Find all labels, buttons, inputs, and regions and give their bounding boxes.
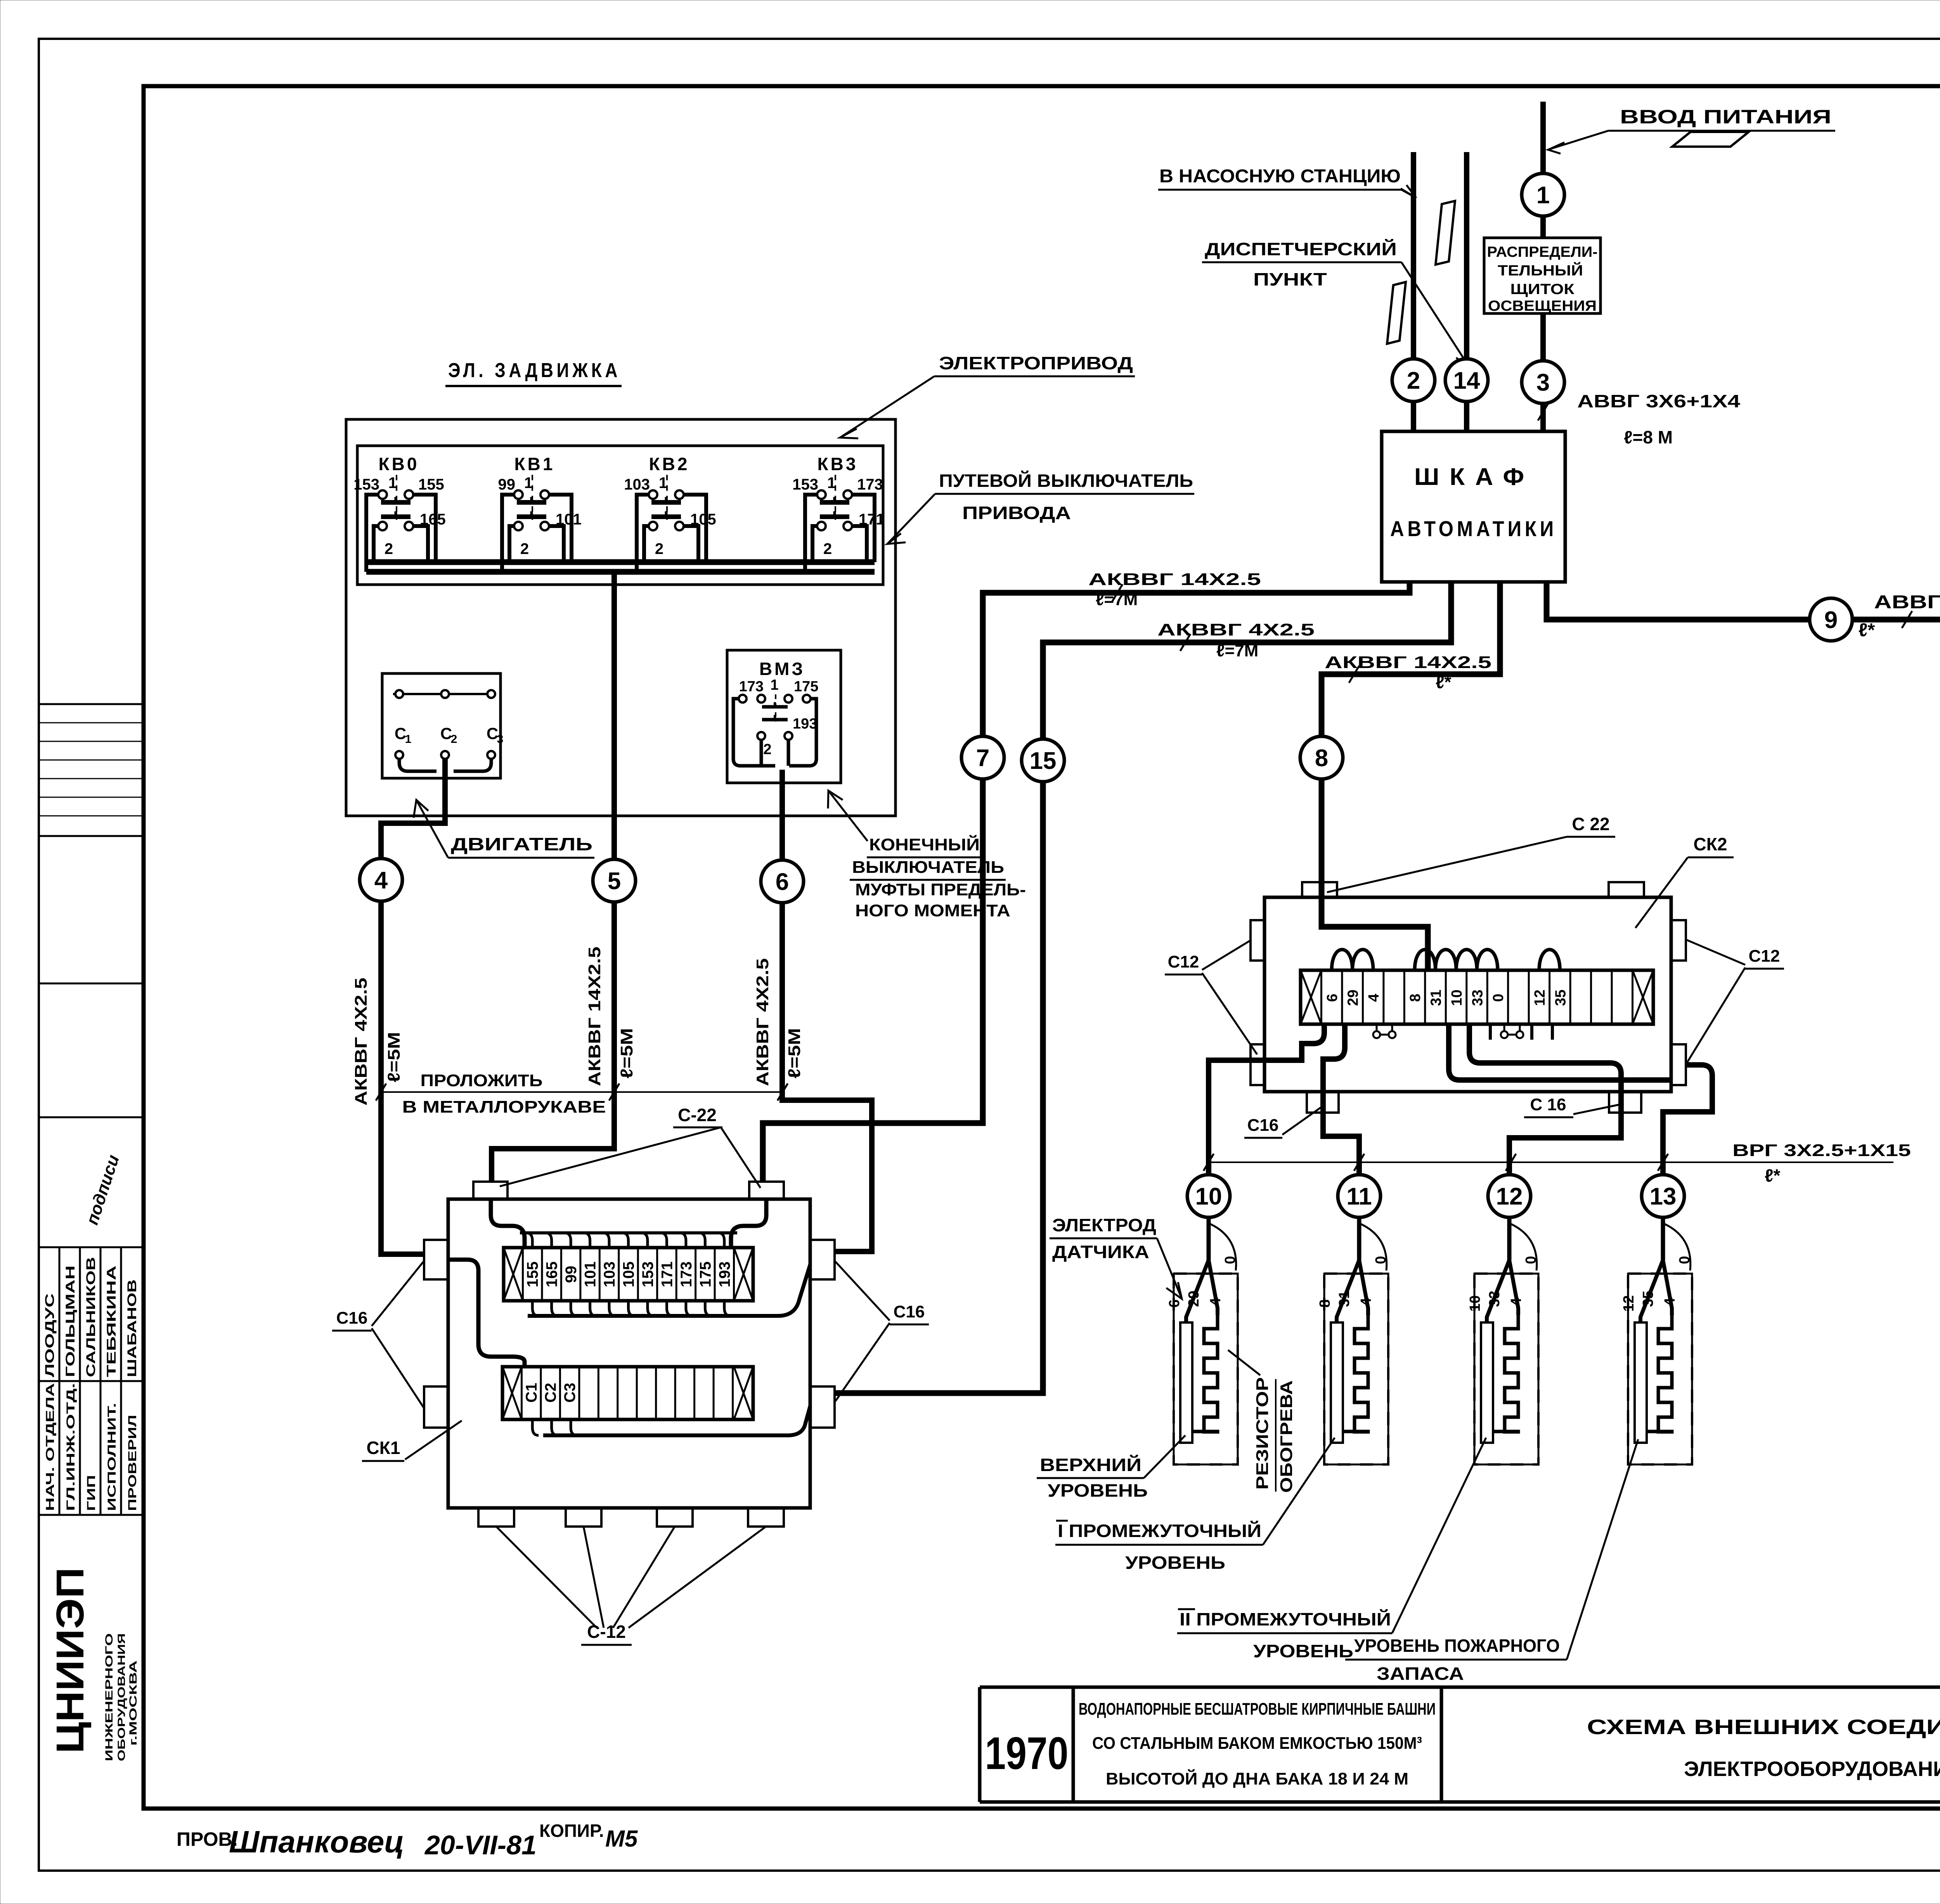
svg-text:УРОВЕНЬ: УРОВЕНЬ xyxy=(1125,1553,1225,1573)
svg-text:АКВВГ 4Х2.5: АКВВГ 4Х2.5 xyxy=(1157,620,1315,639)
node circle 6 xyxy=(761,860,804,903)
svg-text:С: С xyxy=(487,724,498,743)
svg-text:13: 13 xyxy=(1650,1183,1677,1210)
svg-text:С2: С2 xyxy=(542,1383,559,1402)
svg-text:МУФТЫ ПРЕДЕЛЬ-: МУФТЫ ПРЕДЕЛЬ- xyxy=(855,880,1026,899)
SK2 side tabs xyxy=(1251,920,1264,961)
automation cabinet xyxy=(1382,431,1565,582)
node circle 3 xyxy=(1522,361,1564,403)
svg-text:173: 173 xyxy=(678,1262,695,1288)
SK1 internal wire from cable 4 xyxy=(448,1260,525,1367)
svg-text:УРОВЕНЬ ПОЖАРНОГО: УРОВЕНЬ ПОЖАРНОГО xyxy=(1354,1636,1560,1656)
SK1 strip1 top stubs xyxy=(526,1233,532,1248)
svg-text:99: 99 xyxy=(563,1266,580,1283)
SK2 bottom tabs xyxy=(1307,1092,1339,1113)
svg-text:ОБОГРЕВА: ОБОГРЕВА xyxy=(1277,1380,1296,1493)
svg-text:1: 1 xyxy=(1536,182,1550,209)
svg-text:155: 155 xyxy=(524,1262,541,1288)
wire cable 8 run xyxy=(1322,582,1500,970)
svg-text:ПРОЛОЖИТЬ: ПРОЛОЖИТЬ xyxy=(421,1071,543,1090)
level sensor electrode group 8/31 xyxy=(1317,1217,1389,1464)
svg-text:33: 33 xyxy=(1470,990,1486,1006)
svg-text:ДВИГАТЕЛЬ: ДВИГАТЕЛЬ xyxy=(451,834,592,854)
wire cable 9 run xyxy=(1547,582,1940,676)
cable route mark parallelogram B xyxy=(1387,282,1406,344)
svg-text:ГОЛЬЦМАН: ГОЛЬЦМАН xyxy=(63,1265,77,1377)
svg-text:ТЕЛЬНЫЙ: ТЕЛЬНЫЙ xyxy=(1498,261,1583,279)
svg-text:29: 29 xyxy=(1345,990,1361,1006)
node circle 1 xyxy=(1522,173,1564,216)
svg-text:155: 155 xyxy=(418,476,444,493)
svg-text:31: 31 xyxy=(1428,990,1445,1006)
svg-text:15: 15 xyxy=(1030,748,1057,774)
svg-text:101: 101 xyxy=(582,1262,599,1288)
node circle 9 xyxy=(1810,598,1852,641)
svg-text:ВЕРХНИЙ: ВЕРХНИЙ xyxy=(1040,1455,1141,1475)
svg-text:ВЫКЛЮЧАТЕЛЬ: ВЫКЛЮЧАТЕЛЬ xyxy=(852,858,1004,877)
svg-text:10: 10 xyxy=(1195,1183,1222,1210)
svg-text:153: 153 xyxy=(639,1262,656,1288)
svg-text:С12: С12 xyxy=(1749,947,1780,966)
level sensor electrode group 12/35 xyxy=(1621,1217,1693,1464)
svg-text:4: 4 xyxy=(374,867,388,894)
SK2 loops above strip xyxy=(1332,950,1352,970)
node circle 13 xyxy=(1642,1175,1684,1217)
svg-text:М5: М5 xyxy=(605,1826,638,1852)
svg-text:ДАТЧИКА: ДАТЧИКА xyxy=(1052,1242,1149,1262)
svg-text:ИНЖЕНЕРНОГО: ИНЖЕНЕРНОГО xyxy=(103,1633,115,1761)
svg-text:АКВВГ 14Х2.5: АКВВГ 14Х2.5 xyxy=(1325,653,1491,672)
svg-text:С16: С16 xyxy=(1247,1116,1279,1135)
motor terminal box xyxy=(382,673,501,778)
svg-text:ЛООДУС: ЛООДУС xyxy=(43,1293,57,1377)
svg-text:175: 175 xyxy=(794,679,818,695)
wire dispatcher cable 14 xyxy=(1464,152,1469,431)
svg-text:12: 12 xyxy=(1496,1183,1523,1210)
terminal box SK1 xyxy=(448,1199,810,1508)
svg-text:2: 2 xyxy=(1407,367,1420,394)
svg-text:КВ2: КВ2 xyxy=(649,454,690,474)
svg-text:165: 165 xyxy=(544,1262,561,1288)
motor terminal wires xyxy=(399,759,436,771)
svg-text:С16: С16 xyxy=(894,1302,925,1321)
svg-text:г.МОСКВА: г.МОСКВА xyxy=(127,1660,139,1746)
svg-text:ПУНКТ: ПУНКТ xyxy=(1253,269,1327,289)
wire cable 6 run xyxy=(782,770,872,1251)
svg-text:0: 0 xyxy=(1523,1256,1539,1264)
svg-text:2: 2 xyxy=(451,733,457,746)
svg-text:ВМЗ: ВМЗ xyxy=(759,659,805,679)
svg-text:С1: С1 xyxy=(523,1383,540,1402)
wire contact bus in travel switch box xyxy=(366,559,875,565)
svg-text:99: 99 xyxy=(498,476,516,493)
svg-text:0: 0 xyxy=(1222,1256,1238,1264)
svg-text:1: 1 xyxy=(827,474,836,492)
svg-text:НОГО МОМЕНТА: НОГО МОМЕНТА xyxy=(855,901,1010,920)
svg-text:ЩИТОК: ЩИТОК xyxy=(1510,281,1575,298)
svg-text:ℓ=5М: ℓ=5М xyxy=(617,1028,636,1078)
svg-text:153: 153 xyxy=(353,476,379,493)
svg-text:0: 0 xyxy=(1373,1256,1389,1264)
svg-text:ПРИВОДА: ПРИВОДА xyxy=(962,503,1071,523)
svg-text:ИСПОЛНИТ.: ИСПОЛНИТ. xyxy=(106,1403,118,1511)
svg-text:II ПРОМЕЖУТОЧНЫЙ: II ПРОМЕЖУТОЧНЫЙ xyxy=(1180,1609,1391,1629)
svg-text:I ПРОМЕЖУТОЧНЫЙ: I ПРОМЕЖУТОЧНЫЙ xyxy=(1058,1521,1261,1541)
SK2 terminal strip xyxy=(1301,970,1653,1024)
svg-text:ГЛ.ИНЖ.ОТД.: ГЛ.ИНЖ.ОТД. xyxy=(64,1383,77,1511)
svg-text:1: 1 xyxy=(405,733,412,746)
svg-text:ℓ=8 М: ℓ=8 М xyxy=(1624,427,1673,447)
svg-text:173: 173 xyxy=(739,679,764,695)
SK1 terminal strip 1 xyxy=(504,1248,753,1301)
svg-text:С 16: С 16 xyxy=(1530,1095,1566,1114)
svg-text:АКВВГ 14Х2.5: АКВВГ 14Х2.5 xyxy=(585,947,604,1086)
stamp column dividers xyxy=(39,703,144,705)
svg-text:10: 10 xyxy=(1449,990,1465,1006)
svg-text:3: 3 xyxy=(1536,369,1550,396)
svg-text:СХЕМА ВНЕШНИХ СОЕДИНЕНИЙ: СХЕМА ВНЕШНИХ СОЕДИНЕНИЙ xyxy=(1587,1715,1940,1739)
SK1 bottom tabs xyxy=(478,1508,514,1527)
node circle 12 xyxy=(1488,1175,1531,1217)
svg-text:2: 2 xyxy=(823,540,832,557)
svg-text:2: 2 xyxy=(655,540,663,557)
SK1 terminal strip 2 xyxy=(502,1367,753,1419)
svg-text:ℓ=7М: ℓ=7М xyxy=(1216,641,1258,660)
svg-text:ГИП: ГИП xyxy=(85,1475,98,1511)
svg-text:173: 173 xyxy=(857,476,883,493)
SK1 internal wire from cable 5 xyxy=(491,1199,525,1248)
svg-text:5: 5 xyxy=(608,868,621,895)
svg-text:ℓ*: ℓ* xyxy=(1765,1165,1780,1186)
svg-text:С12: С12 xyxy=(1168,952,1199,971)
svg-text:ℓ*: ℓ* xyxy=(1436,672,1451,692)
motor jumper bar xyxy=(393,693,495,695)
svg-text:8: 8 xyxy=(1407,994,1424,1002)
limit switch VM3 xyxy=(733,659,818,766)
svg-text:6: 6 xyxy=(1324,994,1341,1002)
svg-text:ℓ*: ℓ* xyxy=(1859,620,1875,640)
svg-text:4: 4 xyxy=(1366,994,1382,1002)
svg-text:КВ0: КВ0 xyxy=(379,454,419,474)
svg-text:АКВВГ 4Х2.5: АКВВГ 4Х2.5 xyxy=(753,958,772,1086)
svg-text:УРОВЕНЬ: УРОВЕНЬ xyxy=(1048,1480,1148,1501)
svg-text:С: С xyxy=(395,724,406,743)
svg-text:ВОДОНАПОРНЫЕ БЕСШАТРОВЫЕ КИРПИ: ВОДОНАПОРНЫЕ БЕСШАТРОВЫЕ КИРПИЧНЫЕ БАШНИ xyxy=(1079,1700,1436,1719)
svg-text:В НАСОСНУЮ СТАНЦИЮ: В НАСОСНУЮ СТАНЦИЮ xyxy=(1159,166,1401,187)
svg-text:ПРОВЕРИЛ: ПРОВЕРИЛ xyxy=(126,1415,139,1511)
wire cable 15 run xyxy=(835,582,1451,1393)
svg-text:2: 2 xyxy=(385,540,393,557)
svg-text:12: 12 xyxy=(1532,990,1548,1006)
lighting distribution board box xyxy=(1484,238,1600,313)
svg-text:С16: С16 xyxy=(336,1309,368,1328)
wire cable 4 run xyxy=(381,759,445,1254)
svg-text:САЛЬНИКОВ: САЛЬНИКОВ xyxy=(84,1257,98,1377)
svg-text:ВРГ 3Х2.5+1Х15: ВРГ 3Х2.5+1Х15 xyxy=(1732,1141,1911,1160)
svg-text:175: 175 xyxy=(697,1262,714,1288)
svg-text:7: 7 xyxy=(976,745,989,772)
dashed enclosure for electrode group 6 xyxy=(1174,1274,1238,1464)
svg-text:ЭЛЕКТРООБОРУДОВАНИЯ: ЭЛЕКТРООБОРУДОВАНИЯ xyxy=(1684,1757,1940,1781)
SK1 top tabs xyxy=(473,1182,508,1199)
SK2 top tabs xyxy=(1302,882,1337,897)
svg-text:АВВГ 3Х6+1Х4: АВВГ 3Х6+1Х4 xyxy=(1577,391,1741,411)
svg-text:ШКАФ: ШКАФ xyxy=(1414,464,1535,490)
svg-text:11: 11 xyxy=(1346,1183,1372,1210)
svg-text:1: 1 xyxy=(388,474,397,492)
svg-text:ЦНИИЭП: ЦНИИЭП xyxy=(48,1567,92,1753)
svg-text:ВВОД ПИТАНИЯ: ВВОД ПИТАНИЯ xyxy=(1620,106,1831,128)
svg-text:ШАБАНОВ: ШАБАНОВ xyxy=(125,1279,139,1377)
svg-text:ПУТЕВОЙ ВЫКЛЮЧАТЕЛЬ: ПУТЕВОЙ ВЫКЛЮЧАТЕЛЬ xyxy=(939,471,1193,491)
level sensor electrode group 10/33 xyxy=(1467,1217,1539,1464)
note lay in metal hose xyxy=(381,1091,783,1093)
svg-text:ЗАПАСА: ЗАПАСА xyxy=(1377,1663,1464,1684)
limit switch КВ1 xyxy=(498,454,582,572)
node circle 10 xyxy=(1187,1175,1230,1217)
svg-text:УРОВЕНЬ: УРОВЕНЬ xyxy=(1253,1641,1353,1661)
svg-text:АКВВГ 4Х2.5: АКВВГ 4Х2.5 xyxy=(352,978,371,1106)
SK2 jumper links xyxy=(1377,1034,1392,1036)
svg-text:9: 9 xyxy=(1824,607,1838,634)
svg-text:35: 35 xyxy=(1552,990,1569,1006)
wire power input cable 1-3 xyxy=(1540,102,1546,431)
svg-text:КВ3: КВ3 xyxy=(818,454,858,474)
svg-text:СК2: СК2 xyxy=(1694,834,1727,854)
svg-text:1: 1 xyxy=(770,677,778,693)
SK1 strip2 bottom stubs and bundle to cable 15 tab xyxy=(532,1419,539,1435)
node circle 5 xyxy=(593,859,636,902)
svg-text:В МЕТАЛЛОРУКАВЕ: В МЕТАЛЛОРУКАВЕ xyxy=(402,1097,606,1116)
svg-text:ЭЛЕКТРОД: ЭЛЕКТРОД xyxy=(1052,1215,1156,1235)
SK2 wires below strip xyxy=(1209,1024,1324,1174)
svg-text:ОСВЕЩЕНИЯ: ОСВЕЩЕНИЯ xyxy=(1488,298,1597,314)
svg-text:С-22: С-22 xyxy=(678,1105,717,1125)
svg-text:171: 171 xyxy=(658,1262,676,1288)
svg-text:С3: С3 xyxy=(561,1383,579,1402)
svg-text:2: 2 xyxy=(520,540,529,557)
stamp signature table xyxy=(59,1247,61,1515)
svg-text:153: 153 xyxy=(792,476,818,493)
svg-text:ПРОВ.: ПРОВ. xyxy=(177,1828,238,1850)
dashed enclosure for electrode group 8 xyxy=(1324,1274,1388,1464)
node circle 11 xyxy=(1338,1175,1381,1217)
svg-text:ОБОРУДОВАНИЯ: ОБОРУДОВАНИЯ xyxy=(116,1633,127,1761)
svg-text:103: 103 xyxy=(624,476,650,493)
svg-text:ТЕБЯКИНА: ТЕБЯКИНА xyxy=(104,1265,118,1377)
travel switch inner box xyxy=(357,446,883,585)
wire to pump station cable 2 xyxy=(1411,152,1416,431)
node circle 14 xyxy=(1445,359,1488,402)
electric drive outer box xyxy=(346,419,896,816)
level sensor electrode group 6/29 xyxy=(1166,1217,1238,1464)
limit switch КВ0 xyxy=(353,454,446,572)
svg-text:ЭЛЕКТРОПРИВОД: ЭЛЕКТРОПРИВОД xyxy=(939,353,1133,373)
svg-text:КОПИР.: КОПИР. xyxy=(539,1821,604,1841)
svg-text:С 22: С 22 xyxy=(1572,814,1609,834)
node circle 7 xyxy=(961,736,1004,779)
svg-text:ДИСПЕТЧЕРСКИЙ: ДИСПЕТЧЕРСКИЙ xyxy=(1205,239,1397,259)
wire VRG trunk line xyxy=(1207,1161,1893,1163)
node circle 2 xyxy=(1392,359,1435,402)
svg-text:СО СТАЛЬНЫМ БАКОМ ЕМКОСТЬЮ 150: СО СТАЛЬНЫМ БАКОМ ЕМКОСТЬЮ 150М³ xyxy=(1092,1734,1422,1753)
svg-text:КВ1: КВ1 xyxy=(514,454,555,474)
svg-text:3: 3 xyxy=(497,733,504,746)
svg-text:СК1: СК1 xyxy=(367,1438,400,1458)
svg-text:6: 6 xyxy=(776,869,789,895)
svg-text:АВТОМАТИКИ: АВТОМАТИКИ xyxy=(1390,516,1557,541)
terminal box SK2 xyxy=(1264,897,1671,1092)
SK1 internal wire from cable 6 xyxy=(731,1199,766,1248)
svg-text:1970: 1970 xyxy=(985,1728,1069,1779)
svg-text:Шпанковец: Шпанковец xyxy=(229,1824,404,1859)
svg-text:ℓ=5М: ℓ=5М xyxy=(385,1032,404,1082)
svg-text:2: 2 xyxy=(763,741,771,758)
svg-text:КОНЕЧНЫЙ: КОНЕЧНЫЙ xyxy=(869,834,980,854)
svg-text:ℓ=5М: ℓ=5М xyxy=(785,1028,804,1078)
svg-text:ЭЛ. ЗАДВИЖКА: ЭЛ. ЗАДВИЖКА xyxy=(448,359,621,382)
node circle 15 xyxy=(1022,739,1064,782)
node circle 4 xyxy=(360,859,402,901)
svg-text:ВЫСОТОЙ ДО ДНА БАКА 18 И 24 М: ВЫСОТОЙ ДО ДНА БАКА 18 И 24 М xyxy=(1106,1769,1408,1788)
svg-text:1: 1 xyxy=(524,474,533,492)
svg-text:АКВВГ 14Х2.5: АКВВГ 14Х2.5 xyxy=(1088,570,1261,589)
torque limit switch VM3 box xyxy=(727,650,841,783)
svg-text:1: 1 xyxy=(659,474,667,492)
svg-text:14: 14 xyxy=(1453,367,1480,394)
svg-text:РЕЗИСТОР: РЕЗИСТОР xyxy=(1253,1377,1272,1490)
svg-text:193: 193 xyxy=(716,1262,733,1288)
svg-text:105: 105 xyxy=(620,1262,637,1288)
svg-text:103: 103 xyxy=(601,1262,618,1288)
svg-text:20-VII-81: 20-VII-81 xyxy=(424,1830,537,1860)
wire cable 5 run xyxy=(492,572,614,1182)
limit switch КВ2 xyxy=(624,454,716,572)
tick marks on cable runs xyxy=(1112,584,1122,601)
SK1 side tabs xyxy=(424,1240,448,1279)
svg-text:С: С xyxy=(440,724,452,743)
title block frame xyxy=(980,1686,1940,1689)
limit switch КВ3 xyxy=(792,454,885,572)
svg-text:0: 0 xyxy=(1490,994,1507,1002)
dashed enclosure for electrode group 12 xyxy=(1628,1274,1692,1464)
stamp small rows xyxy=(39,722,144,724)
svg-text:8: 8 xyxy=(1315,745,1328,772)
svg-text:0: 0 xyxy=(1677,1256,1693,1264)
SK1 strip1 bottom stubs and bundle to cable 7 tab xyxy=(532,1301,539,1316)
dashed enclosure for electrode group 10 xyxy=(1474,1274,1538,1464)
svg-text:193: 193 xyxy=(793,716,817,732)
svg-text:АВВГ 3Х4+1Х2,5: АВВГ 3Х4+1Х2,5 xyxy=(1874,592,1940,613)
cable route mark parallelogram A xyxy=(1436,201,1455,265)
wire cable 7 run xyxy=(763,582,1410,1182)
svg-text:НАЧ. ОТДЕЛА: НАЧ. ОТДЕЛА xyxy=(44,1383,57,1511)
svg-text:РАСПРЕДЕЛИ-: РАСПРЕДЕЛИ- xyxy=(1487,244,1598,260)
cable route mark parallelogram (input) xyxy=(1672,132,1749,147)
node circle 8 xyxy=(1300,736,1343,779)
